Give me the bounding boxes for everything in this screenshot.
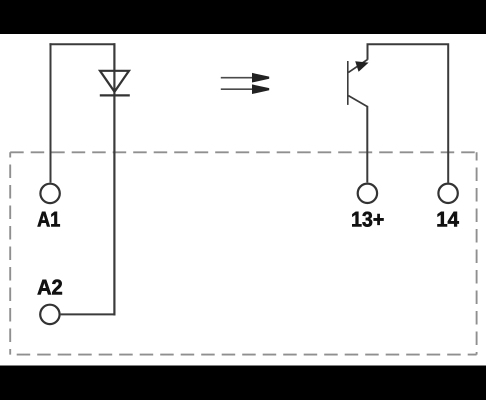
terminal circle A2	[40, 305, 59, 324]
label 14	[438, 212, 459, 227]
terminal circle 13+	[358, 184, 377, 203]
phototransistor emitter diagonal	[348, 96, 367, 107]
wire: collector top horizontal + 14 vertical	[368, 44, 449, 182]
label 13+	[352, 212, 383, 227]
phototransistor collector arrowhead	[355, 61, 368, 72]
label A1	[38, 212, 60, 227]
label A2	[38, 280, 62, 295]
phototransistor base bar	[347, 61, 349, 105]
LED diode: triangle (anode)	[100, 71, 129, 92]
terminal circle A1	[40, 184, 59, 203]
phototransistor collector diagonal	[348, 60, 367, 73]
module outline (dashed boundary)	[10, 152, 476, 354]
light arrow 2 (lower)	[221, 84, 269, 94]
wire: input top horizontal (A1 loop)	[49, 43, 115, 45]
light arrow 1 (upper)	[221, 73, 269, 83]
wire: A2 horizontal	[61, 313, 116, 315]
wire: A1 vertical	[50, 43, 52, 182]
wire: emitter vertical to 13+	[366, 106, 368, 182]
LED diode: cathode bar	[100, 94, 130, 96]
terminal circle 14	[438, 184, 457, 203]
wire: diode branch vertical	[113, 43, 115, 315]
